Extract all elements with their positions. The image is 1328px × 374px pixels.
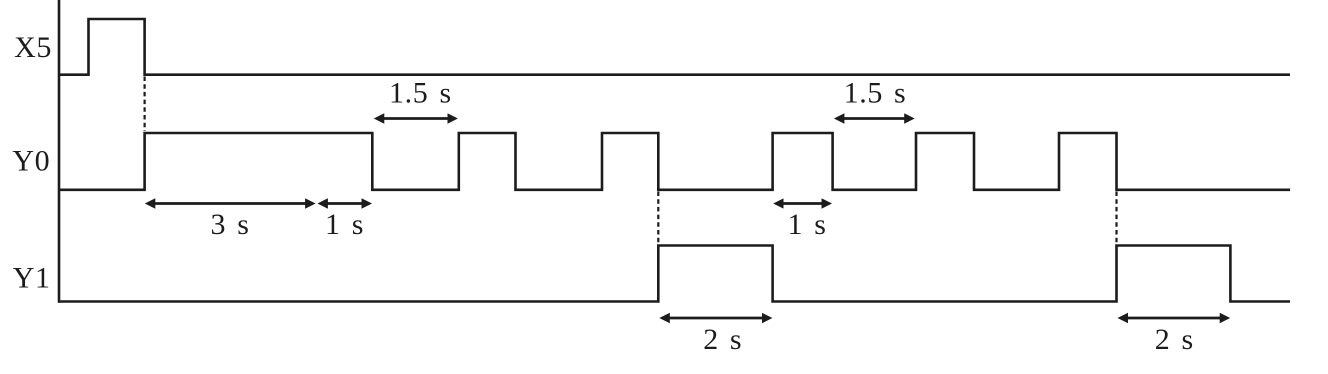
dotted link X5 fall to Y0 rise [144,77,146,132]
svg-text:X5: X5 [14,31,52,64]
waveform Y0 [59,133,1290,190]
dimension arrow 2 s (first) [665,317,766,320]
waveform X5 [59,19,1290,75]
dotted link Y0 fall to Y1 rise (second) [1115,192,1117,245]
svg-text:1 s: 1 s [788,208,827,241]
dimension arrow 1 s (first) [323,202,366,205]
dimension arrow 1 s (second) [779,202,826,205]
svg-text:1.5 s: 1.5 s [389,77,452,110]
svg-text:1.5 s: 1.5 s [844,77,907,110]
svg-text:Y1: Y1 [13,262,51,295]
waveform Y1 [59,246,1290,302]
svg-text:Y0: Y0 [12,145,50,178]
dimension arrow 1.5 s (first) [380,117,452,120]
svg-text:3 s: 3 s [211,208,250,241]
dotted link Y0 fall to Y1 rise (first) [657,192,659,245]
svg-text:2 s: 2 s [1155,323,1194,356]
svg-text:1 s: 1 s [325,208,364,241]
svg-text:2 s: 2 s [703,323,742,356]
axis vertical line [58,0,61,303]
dimension arrow 3 s [151,202,310,205]
dimension arrow 2 s (second) [1124,317,1225,320]
dimension arrow 1.5 s (second) [840,117,909,120]
